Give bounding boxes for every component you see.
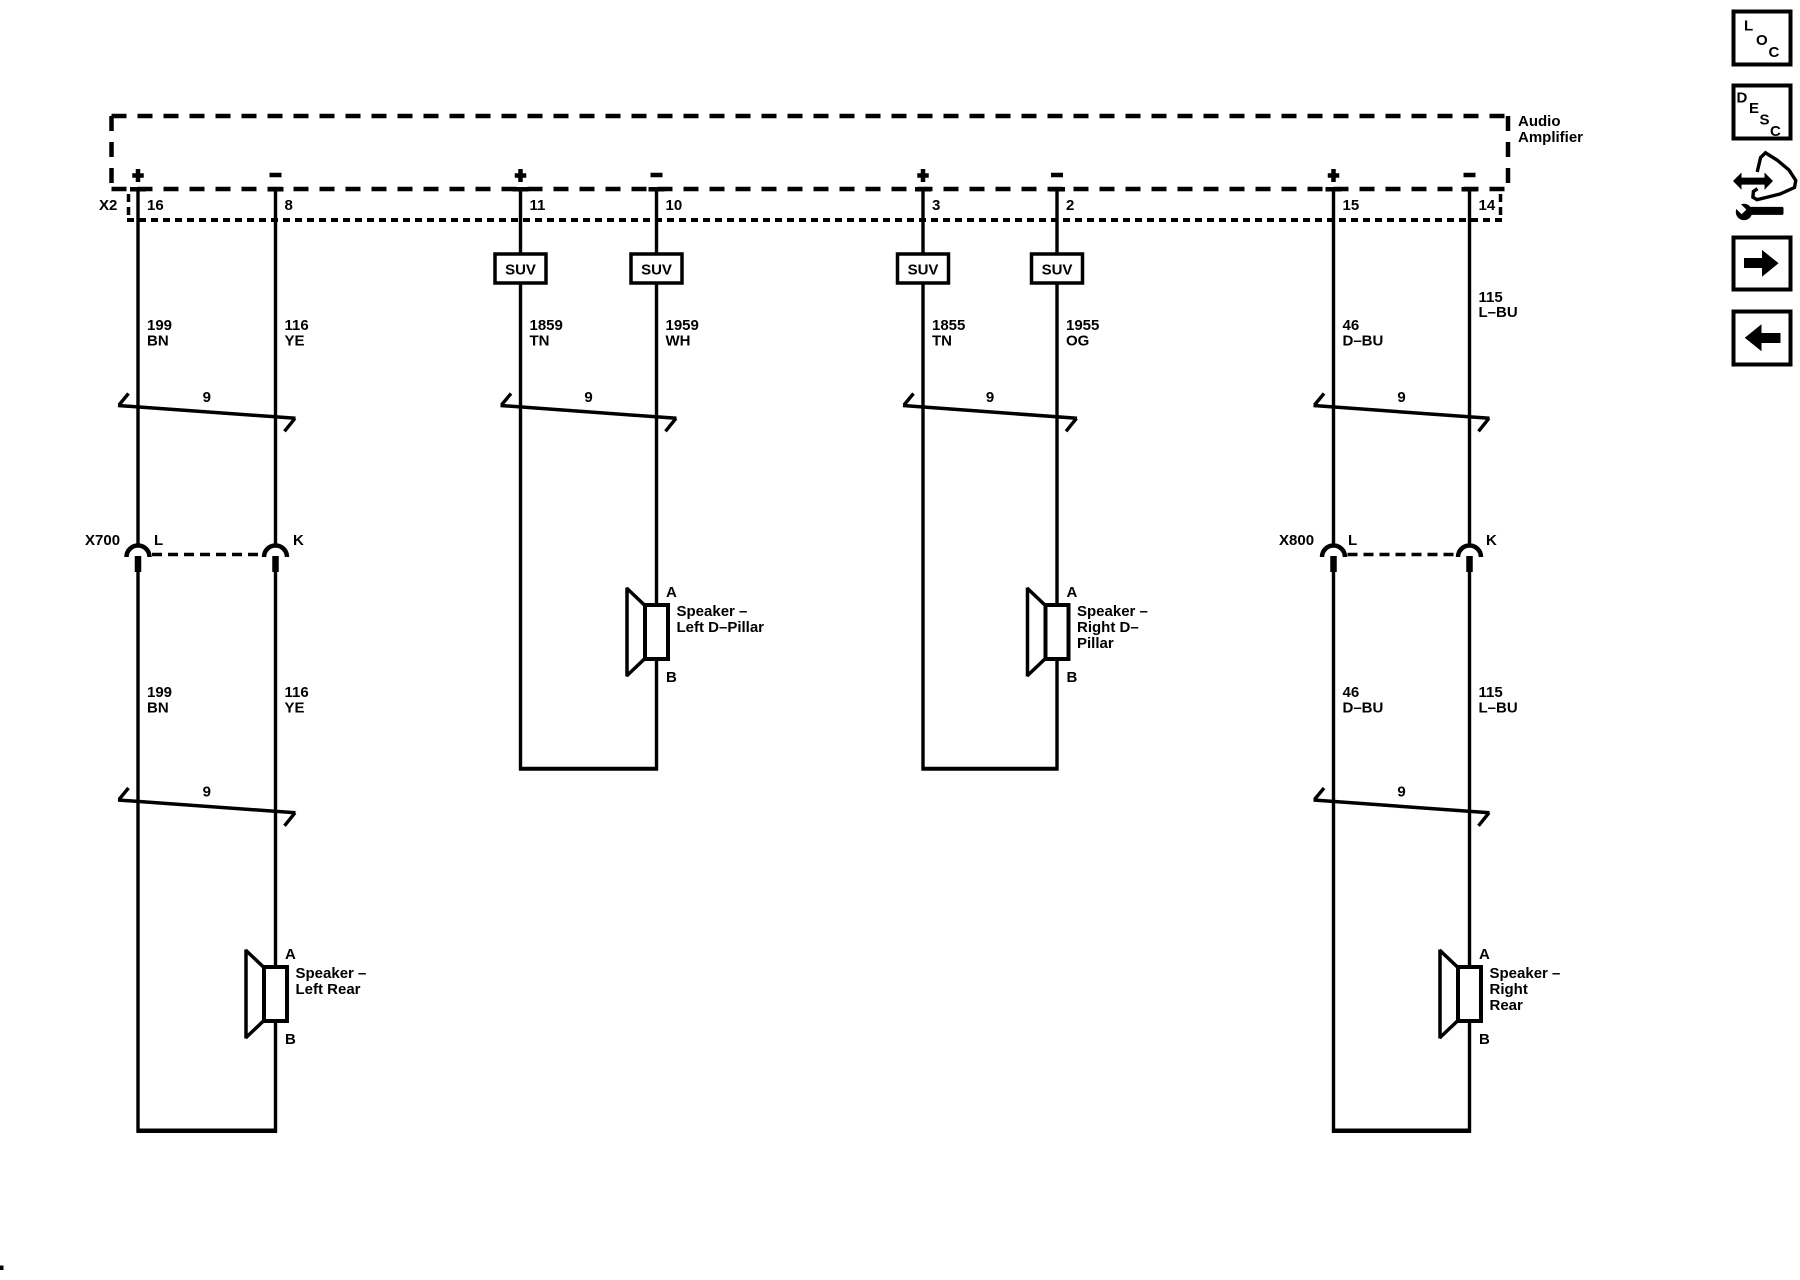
connector X700 pin L	[127, 546, 150, 558]
icon box DESC	[1734, 86, 1791, 141]
connector X800 dashed tie line	[1348, 553, 1456, 557]
svg-text:YE: YE	[285, 700, 305, 717]
wire 1959 WH segment	[655, 189, 658, 771]
audio amplifier U1 dashed outline box	[112, 116, 1509, 189]
svg-text:X700: X700	[85, 532, 120, 549]
svg-text:9: 9	[203, 784, 211, 801]
icon box arrow left	[1734, 312, 1791, 365]
wire return, left D-pillar loop	[519, 767, 658, 771]
svg-text:SUV: SUV	[505, 262, 536, 279]
pin 3 terminal cap	[915, 187, 931, 192]
speaker - left rear LS3	[246, 946, 367, 1048]
connector X700 pin K	[264, 546, 287, 558]
pin 15 terminal cap	[1326, 187, 1342, 192]
pin 10 terminal cap	[649, 187, 665, 192]
wire 116 YE upper segment	[274, 189, 277, 546]
svg-text:TN: TN	[530, 333, 550, 350]
svg-text:46: 46	[1343, 317, 1360, 334]
pin 2 terminal cap	[1049, 187, 1065, 192]
polarity + for pin 3	[917, 173, 929, 178]
svg-text:Speaker –: Speaker –	[677, 603, 748, 620]
wire 1859 TN segment	[519, 189, 522, 771]
option box SUV on wire 1859	[495, 254, 546, 283]
svg-text:Rear: Rear	[1490, 997, 1524, 1014]
polarity + for pin 11	[515, 173, 527, 178]
pin 11 terminal cap	[513, 187, 529, 192]
svg-text:Right D–: Right D–	[1077, 619, 1139, 636]
svg-text:9: 9	[584, 389, 592, 406]
wire label 46 D–BU upper	[1343, 317, 1384, 350]
svg-text:O: O	[1756, 32, 1768, 49]
svg-text:OG: OG	[1066, 333, 1089, 350]
wire return, right rear loop	[1332, 1129, 1471, 1134]
icon jump arrows and wrench	[1731, 153, 1796, 220]
svg-text:YE: YE	[285, 333, 305, 350]
svg-text:BN: BN	[147, 333, 169, 350]
svg-text:1859: 1859	[530, 317, 563, 334]
twisted pair symbol, circuit 9, pair 46/115	[1314, 389, 1490, 431]
wire label 1859 TN upper	[530, 317, 563, 350]
wire return, right D-pillar loop	[922, 767, 1059, 771]
wire label 115 L-BU lower	[1479, 684, 1518, 717]
svg-text:C: C	[1770, 123, 1781, 140]
connector X800 pin K	[1458, 546, 1481, 558]
svg-text:8: 8	[285, 197, 293, 214]
pin 8 terminal cap	[268, 187, 284, 192]
connector X800 pin L	[1322, 546, 1345, 558]
svg-text:L: L	[1744, 18, 1753, 35]
svg-text:C: C	[1769, 44, 1780, 61]
svg-text:A: A	[1479, 946, 1490, 963]
svg-text:B: B	[666, 669, 677, 686]
twisted pair symbol, circuit 9, pair 1855/1955	[903, 389, 1077, 431]
wire 115 L-BU lower segment	[1468, 572, 1471, 1133]
connector X2 dotted strip	[127, 194, 1503, 220]
svg-text:Speaker –: Speaker –	[1490, 965, 1561, 982]
svg-text:2: 2	[1066, 197, 1074, 214]
twisted pair symbol, circuit 9, pair 199/116	[118, 389, 296, 431]
svg-text:9: 9	[1397, 784, 1405, 801]
wire label 199 BN upper	[147, 317, 172, 350]
polarity - for pin 8	[270, 173, 282, 178]
connector X700 dashed tie line	[152, 553, 262, 557]
svg-text:14: 14	[1479, 197, 1496, 214]
polarity - for pin 2	[1051, 173, 1063, 178]
polarity - for pin 14	[1464, 173, 1476, 178]
svg-text:L–BU: L–BU	[1479, 304, 1518, 321]
svg-text:115: 115	[1479, 684, 1503, 701]
svg-text:K: K	[293, 532, 304, 549]
svg-text:BN: BN	[147, 700, 169, 717]
svg-text:9: 9	[1397, 389, 1405, 406]
svg-text:Right: Right	[1490, 981, 1528, 998]
svg-text:L: L	[1348, 532, 1357, 549]
svg-text:A: A	[285, 946, 296, 963]
svg-text:L: L	[154, 532, 163, 549]
page edge mark	[0, 1266, 4, 1271]
wire 46 D-BU lower segment	[1332, 572, 1335, 1133]
svg-text:Amplifier: Amplifier	[1518, 129, 1583, 146]
svg-text:L–BU: L–BU	[1479, 700, 1518, 717]
wire label 199 BN lower	[147, 684, 172, 717]
svg-text:11: 11	[530, 197, 546, 214]
svg-text:X800: X800	[1279, 532, 1314, 549]
wire 116 YE lower segment	[274, 572, 277, 1133]
svg-text:D–BU: D–BU	[1343, 700, 1384, 717]
audio amplifier label	[1518, 113, 1583, 146]
polarity + for pin 16	[132, 173, 144, 178]
svg-text:15: 15	[1343, 197, 1360, 214]
wire 199 BN lower segment	[136, 572, 139, 1133]
svg-text:10: 10	[666, 197, 683, 214]
twisted pair symbol, circuit 9, rear left pair	[118, 784, 296, 826]
svg-text:B: B	[1067, 669, 1078, 686]
svg-text:SUV: SUV	[1042, 262, 1073, 279]
svg-text:Left Rear: Left Rear	[296, 981, 361, 998]
svg-text:A: A	[666, 584, 677, 601]
svg-text:B: B	[285, 1031, 296, 1048]
wire 46 D-BU upper segment	[1332, 189, 1335, 546]
wire label 115 L–BU upper	[1479, 289, 1518, 321]
svg-text:TN: TN	[932, 333, 952, 350]
svg-text:WH: WH	[666, 333, 691, 350]
twisted pair symbol, circuit 9, rear right pair	[1314, 784, 1490, 826]
svg-text:199: 199	[147, 317, 172, 334]
svg-text:SUV: SUV	[908, 262, 939, 279]
svg-text:1855: 1855	[932, 317, 965, 334]
option box SUV on wire 1855	[898, 254, 949, 283]
speaker - right rear LS4	[1440, 946, 1561, 1048]
icon box arrow right	[1734, 238, 1791, 290]
svg-text:16: 16	[147, 197, 164, 214]
svg-text:3: 3	[932, 197, 940, 214]
icon box LOC	[1734, 12, 1791, 65]
svg-text:D: D	[1737, 90, 1748, 107]
wire return, left rear loop	[137, 1129, 278, 1134]
svg-text:46: 46	[1343, 684, 1360, 701]
svg-text:Left D–Pillar: Left D–Pillar	[677, 619, 765, 636]
twisted pair symbol, circuit 9, pair 1859/1959	[501, 389, 677, 431]
svg-text:Pillar: Pillar	[1077, 635, 1114, 652]
wire 199 BN upper segment	[136, 189, 139, 546]
wire label 116 YE lower	[285, 684, 309, 717]
svg-text:116: 116	[285, 684, 309, 701]
svg-text:1959: 1959	[666, 317, 699, 334]
wire label 1855 TN upper	[932, 317, 965, 350]
svg-text:199: 199	[147, 684, 172, 701]
wire 1855 TN segment	[921, 189, 924, 771]
svg-text:S: S	[1760, 112, 1770, 129]
speaker - right D-pillar LS2	[1027, 584, 1148, 686]
svg-text:1955: 1955	[1066, 317, 1099, 334]
svg-text:E: E	[1749, 100, 1759, 117]
svg-text:Audio: Audio	[1518, 113, 1561, 130]
wire label 1959 WH upper	[666, 317, 699, 350]
pin 16 terminal cap	[130, 187, 146, 192]
pin 14 terminal cap	[1462, 187, 1478, 192]
option box SUV on wire 1955	[1032, 254, 1083, 283]
svg-text:D–BU: D–BU	[1343, 333, 1384, 350]
svg-text:Speaker –: Speaker –	[296, 965, 367, 982]
polarity - for pin 10	[651, 173, 663, 178]
svg-text:9: 9	[203, 389, 211, 406]
wire 1955 OG segment	[1055, 189, 1058, 771]
wire label 116 YE upper	[285, 317, 309, 350]
svg-text:9: 9	[986, 389, 994, 406]
speaker - left D-pillar LS1	[627, 584, 765, 686]
svg-text:SUV: SUV	[641, 262, 672, 279]
wire 115 L-BU upper segment	[1468, 189, 1471, 546]
polarity + for pin 15	[1328, 173, 1340, 178]
svg-text:A: A	[1067, 584, 1078, 601]
svg-text:Speaker –: Speaker –	[1077, 603, 1148, 620]
svg-text:116: 116	[285, 317, 309, 334]
svg-text:K: K	[1486, 532, 1497, 549]
svg-text:B: B	[1479, 1031, 1490, 1048]
svg-text:X2: X2	[99, 197, 117, 214]
wire label 46 D-BU lower	[1343, 684, 1384, 717]
wire label 1955 OG upper	[1066, 317, 1099, 350]
option box SUV on wire 1959	[631, 254, 682, 283]
